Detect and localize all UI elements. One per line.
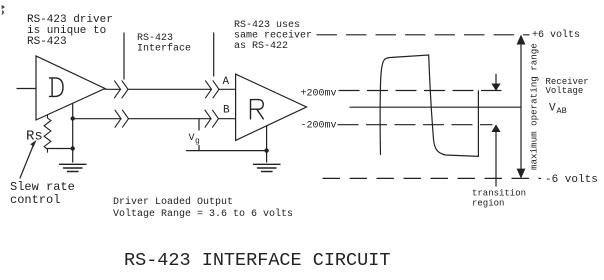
svg-text:+200mv: +200mv	[301, 89, 337, 100]
dashed line -200mv	[338, 124, 492, 126]
wire: line A	[105, 88, 236, 90]
dimension arrow up at -200mv	[495, 131, 497, 186]
svg-text:transition: transition	[472, 189, 526, 199]
svg-text:RS-423: RS-423	[27, 36, 67, 48]
ground (driver)	[60, 164, 87, 171]
svg-text:same receiver: same receiver	[234, 30, 312, 42]
annotation: transition region	[472, 189, 526, 209]
chevron pair line B left	[115, 110, 129, 127]
svg-text:V: V	[189, 133, 195, 144]
wire: Vg stub from line B	[198, 119, 200, 130]
op-amp U1 driver triangle	[36, 56, 105, 120]
chevron pair line A right	[206, 81, 220, 98]
chevron pair line B right	[205, 110, 219, 127]
leader line: RS-423 Interface	[123, 33, 125, 79]
svg-text:RS-423: RS-423	[137, 33, 173, 44]
wire: driver output tap vertical	[72, 104, 74, 163]
op-amp U2 receiver triangle	[236, 74, 307, 140]
leader arrow: slew rate control	[20, 146, 33, 178]
svg-text:Interface: Interface	[137, 43, 191, 55]
wire: line B	[73, 118, 236, 120]
svg-text:g: g	[195, 137, 200, 146]
svg-text:AB: AB	[557, 106, 567, 116]
svg-text:Driver Loaded Output: Driver Loaded Output	[113, 196, 233, 208]
resistor Rs	[44, 115, 51, 152]
svg-text:RS-423 uses: RS-423 uses	[234, 20, 300, 31]
node junction dot Vg	[264, 148, 268, 152]
label R	[251, 100, 264, 119]
svg-text:-200mv: -200mv	[301, 121, 337, 132]
svg-text:-6 volts: -6 volts	[545, 174, 598, 186]
dashed line +200mv	[339, 90, 501, 92]
svg-text:Voltage Range = 3.6 to 6 volts: Voltage Range = 3.6 to 6 volts	[113, 208, 293, 220]
center zero line	[350, 106, 521, 108]
svg-text:as RS-422: as RS-422	[234, 41, 288, 52]
svg-text:A: A	[223, 76, 230, 88]
label D	[50, 78, 64, 97]
label: Receiver Voltage	[546, 77, 589, 96]
node junction dot ground	[71, 146, 75, 150]
svg-text:control: control	[10, 193, 60, 207]
node junction dot B	[71, 116, 75, 120]
annotation: Slew rate control	[10, 180, 75, 207]
svg-text:+6 volts: +6 volts	[532, 29, 580, 41]
wire: Vg ground line	[187, 150, 267, 152]
svg-text:B: B	[223, 105, 230, 117]
dimension arrow: maximum operating range	[520, 43, 522, 170]
svg-text:RS-423 INTERFACE CIRCUIT: RS-423 INTERFACE CIRCUIT	[124, 250, 390, 271]
label Vg	[189, 133, 201, 146]
label: V AB	[549, 103, 567, 117]
dimension arrow down at +200mv	[495, 74, 497, 84]
ground (receiver)	[254, 164, 281, 171]
dashed line -6 volts	[323, 177, 541, 179]
dashed line +6 volts	[317, 34, 529, 36]
annotation: RS-423 Interface	[137, 33, 191, 55]
corner artifact mark	[2, 6, 5, 15]
svg-text:Voltage: Voltage	[546, 86, 584, 96]
annotation: Driver Loaded Output	[113, 196, 293, 220]
chevron pair line A left	[115, 81, 129, 98]
annotation: RS-423 driver is unique to RS-423	[27, 14, 113, 48]
svg-text:V: V	[549, 103, 556, 115]
wire: Rs bottom to tap	[48, 148, 73, 150]
annotation: RS-423 uses same receiver as RS-422	[234, 20, 312, 52]
svg-text:region: region	[472, 199, 504, 209]
leader line: RS-423 uses same receiver	[213, 33, 215, 76]
svg-text:Slew rate: Slew rate	[10, 180, 75, 194]
waveform	[380, 55, 478, 156]
wire: receiver ground vertical	[266, 126, 268, 162]
wire: driver input stub	[17, 88, 36, 90]
wire: Vg stub lower	[198, 146, 200, 151]
svg-text:maximum operating range: maximum operating range	[529, 43, 540, 170]
